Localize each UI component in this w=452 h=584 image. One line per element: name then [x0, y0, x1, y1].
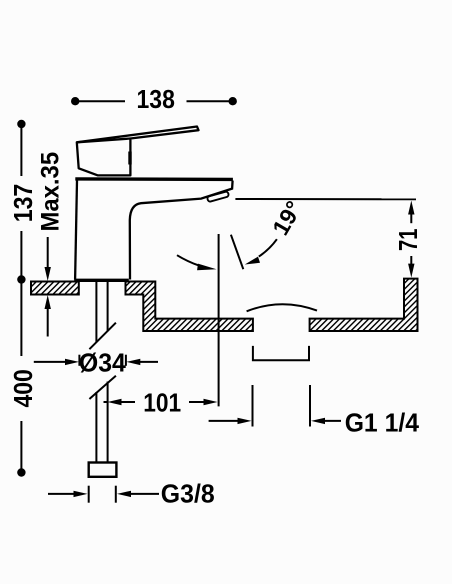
pipe break slash lower — [89, 376, 116, 399]
arrow Max.35 down — [45, 237, 51, 281]
svg-text:Ø34: Ø34 — [79, 348, 127, 378]
G1 1/4 extension lines — [252, 385, 254, 427]
svg-text:137: 137 — [8, 184, 38, 223]
G3/8 tick marks — [88, 486, 90, 503]
supply nut — [89, 463, 117, 477]
stream vertical reference line — [218, 234, 220, 406]
arrow Max.35 up (deck underside) — [45, 295, 51, 337]
svg-text:101: 101 — [143, 388, 181, 418]
countertop middle stepped slab — [126, 282, 253, 332]
svg-text:G3/8: G3/8 — [161, 479, 215, 509]
dimension 138 top — [71, 97, 237, 105]
countertop right slab with riser — [310, 279, 418, 331]
dimension 101 — [104, 399, 218, 405]
dimension G1 1/4 — [209, 418, 341, 424]
angle arc right with arrow — [245, 239, 277, 264]
svg-text:G1 1/4: G1 1/4 — [345, 408, 420, 438]
svg-text:Max.35: Max.35 — [36, 152, 64, 232]
faucet base bottom — [74, 279, 129, 282]
dimension 137 left — [17, 120, 25, 284]
dimension 71 right — [408, 201, 414, 278]
countertop left slab — [31, 282, 79, 295]
dimension 400 left — [17, 281, 25, 477]
handle joint mark — [128, 152, 131, 165]
spout height reference line — [235, 198, 416, 200]
svg-text:400: 400 — [8, 369, 38, 407]
supply pipe lines — [96, 282, 107, 463]
dimension D34 — [34, 355, 158, 366]
stream 19-degree line — [231, 235, 243, 270]
dimension G3/8 — [48, 491, 159, 497]
faucet body top line — [75, 177, 233, 181]
faucet body outline — [75, 181, 233, 280]
pipe break slash upper — [89, 323, 116, 350]
faucet handle lever — [77, 127, 199, 176]
basin bottom arc — [247, 304, 317, 311]
angle arc left with arrow — [177, 255, 217, 270]
svg-text:71: 71 — [393, 229, 423, 252]
aerator — [207, 191, 229, 202]
svg-text:138: 138 — [137, 84, 175, 114]
drain pipe bracket — [253, 346, 309, 360]
